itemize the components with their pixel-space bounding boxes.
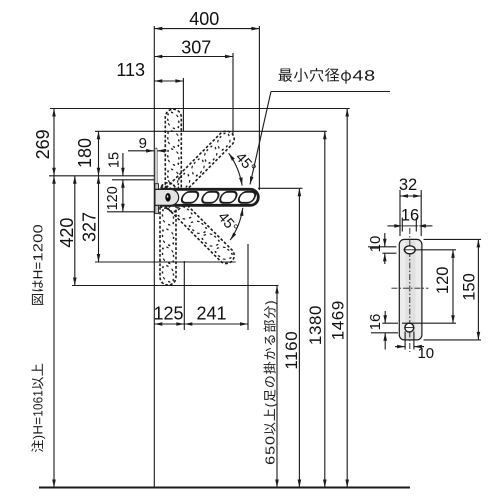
svg-text:1160: 1160 xyxy=(282,331,301,370)
svg-text:10: 10 xyxy=(417,345,434,362)
svg-text:16: 16 xyxy=(401,207,419,225)
phantom arm down (90deg) xyxy=(160,183,176,285)
dim 1469 xyxy=(346,109,348,488)
dim 120 right xyxy=(416,249,457,251)
arc 45 lower xyxy=(230,208,243,240)
phantom arm 45 up xyxy=(154,128,238,212)
side view hole top xyxy=(404,246,415,254)
svg-text:241: 241 xyxy=(196,304,226,324)
dim 10 top-left xyxy=(368,246,396,248)
solid arm horizontal xyxy=(156,189,258,205)
extension line: plate hole bottom level xyxy=(107,211,154,213)
extension line: 45-down tip level xyxy=(95,261,236,263)
extension line: arm top right (1160 top) xyxy=(258,187,303,189)
side view centerline vertical xyxy=(409,228,411,352)
dim 241 xyxy=(184,323,248,325)
extension line: 241 right xyxy=(247,244,249,330)
label H=1061 note line1 xyxy=(31,364,45,453)
dim 150 right xyxy=(424,238,482,240)
svg-text:150: 150 xyxy=(461,273,479,301)
svg-text:180: 180 xyxy=(75,138,95,168)
arc 45 upper xyxy=(229,153,242,185)
dim 9 xyxy=(128,150,154,152)
wall bracket flange bottom xyxy=(155,205,159,213)
dim 16 bottom-left xyxy=(382,322,398,324)
extension line: 307 right xyxy=(232,53,234,134)
svg-text:420: 420 xyxy=(57,218,77,248)
dim 32 xyxy=(399,190,401,236)
extension line: 125/241 common xyxy=(183,261,185,330)
dim 10 bottom xyxy=(404,332,406,350)
label 650以上 xyxy=(264,301,278,464)
wall bracket tab xyxy=(155,189,179,205)
dim 400 xyxy=(154,28,259,30)
svg-text:120: 120 xyxy=(434,267,452,295)
extension line: mount top level xyxy=(49,175,154,177)
svg-text:269: 269 xyxy=(33,129,53,159)
ground line xyxy=(39,487,410,489)
arm slots xyxy=(180,192,200,203)
dim 15 xyxy=(122,153,124,176)
phantom arm 45 down xyxy=(154,183,238,267)
wall bracket flange top xyxy=(155,184,159,190)
label H=1200 note line2 xyxy=(32,225,44,305)
svg-text:9: 9 xyxy=(139,135,147,152)
tick: plate front edge for dim 9 xyxy=(155,148,157,162)
phantom arm up (90deg) xyxy=(165,109,181,211)
svg-text:10: 10 xyxy=(367,236,384,253)
side view hole bottom xyxy=(405,323,414,332)
svg-text:400: 400 xyxy=(189,9,219,29)
extension line: arm tip (400 right) xyxy=(258,26,260,190)
side view centerline horizontal xyxy=(392,287,429,289)
svg-text:32: 32 xyxy=(399,176,417,194)
extension line: 45-up tip level xyxy=(95,130,327,132)
dim 180 xyxy=(98,131,100,176)
svg-text:16: 16 xyxy=(367,314,384,331)
svg-text:307: 307 xyxy=(181,38,211,58)
dim 16 top xyxy=(401,218,403,232)
svg-text:1380: 1380 xyxy=(306,305,325,345)
dim 1160 xyxy=(298,188,300,487)
label min hole dia phi48 xyxy=(279,68,375,84)
dim 307 xyxy=(154,56,233,58)
dim 120 left xyxy=(122,180,124,212)
wall line / common extension for 400,307,113 xyxy=(153,26,155,488)
svg-text:113: 113 xyxy=(116,60,145,80)
dim 650 vertical xyxy=(276,286,278,488)
wall plate edge strip (front view) xyxy=(155,149,157,214)
dim 125 xyxy=(154,323,184,325)
extension line: arm-up tip level (top) xyxy=(50,108,350,110)
svg-text:120: 120 xyxy=(105,186,121,210)
pivot pin xyxy=(165,193,170,202)
extension line: 113 right xyxy=(182,78,184,131)
extension line: arm-down tip level / 650 top xyxy=(72,285,279,287)
svg-text:125: 125 xyxy=(153,304,183,324)
side view plate xyxy=(399,239,422,340)
extension line: plate hole top level xyxy=(112,179,154,181)
dim 420 xyxy=(74,176,76,286)
dim 1380 xyxy=(324,131,326,487)
dim 113 xyxy=(154,80,183,82)
dim H note (vertical) xyxy=(53,176,55,488)
svg-text:15: 15 xyxy=(106,152,122,168)
leader line to end hole xyxy=(271,91,390,93)
svg-text:1469: 1469 xyxy=(328,300,347,340)
dim 327 xyxy=(98,176,100,262)
svg-text:327: 327 xyxy=(79,212,99,242)
dim 269 xyxy=(53,109,55,176)
